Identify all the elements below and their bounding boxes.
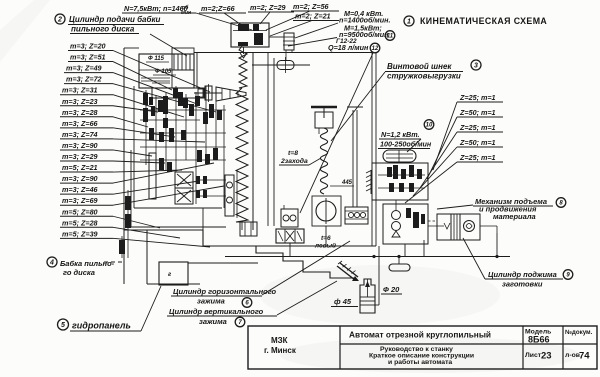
svg-text:Цилиндр горизонтального: Цилиндр горизонтального — [173, 287, 277, 296]
link spring to drive — [428, 223, 450, 229]
svg-text:m=5; Z=39: m=5; Z=39 — [62, 229, 98, 238]
svg-text:m=3; Z=90: m=3; Z=90 — [62, 141, 98, 150]
leader m=2 Z=21 — [270, 21, 312, 37]
gauge column — [225, 175, 234, 216]
piston block with balls — [345, 207, 368, 224]
leader line from label m=3; Z=69 — [113, 186, 224, 205]
svg-text:Цилиндр подачи бабки: Цилиндр подачи бабки — [69, 15, 161, 24]
gear box top motor housing — [231, 23, 269, 47]
vertical clamp cylinder — [360, 279, 375, 313]
svg-text:m=3; Z=20: m=3; Z=20 — [70, 42, 106, 51]
svg-text:m=3; Z=66: m=3; Z=66 — [62, 119, 99, 128]
directional valve A — [276, 229, 304, 243]
roller feed frame — [437, 214, 480, 240]
svg-text:1: 1 — [407, 19, 411, 26]
label 2: cylinder of saw-blade head feed — [55, 14, 65, 24]
leader line from label m=3; Z=74 — [113, 139, 205, 142]
svg-text:МЗК: МЗК — [271, 336, 288, 345]
leader dashes from label 4 — [104, 261, 122, 263]
svg-text:m=3; Z=29: m=3; Z=29 — [62, 152, 98, 161]
svg-text:5: 5 — [61, 322, 65, 329]
scan haze bottom-center — [260, 265, 500, 325]
pinch roller circle — [464, 221, 475, 232]
svg-text:m=3; Z=46: m=3; Z=46 — [62, 185, 99, 194]
leader line from label m=3; Z=31 — [113, 95, 184, 117]
svg-text:Бабка пильно-: Бабка пильно- — [60, 259, 115, 268]
svg-text:го диска: го диска — [63, 268, 95, 277]
label 5: hydraulic panel — [58, 319, 69, 330]
svg-text:445: 445 — [341, 180, 353, 186]
svg-text:Ф 115: Ф 115 — [148, 56, 165, 62]
leader for Z=50; m=1 — [413, 147, 457, 196]
leader from label 5 to panel — [141, 286, 161, 331]
svg-text:№докум.: №докум. — [565, 329, 593, 336]
leader from label 3 to screw — [331, 72, 385, 141]
leader from label 7 — [277, 281, 337, 315]
leader from label 9 — [463, 238, 485, 279]
svg-text:материала: материала — [493, 212, 536, 221]
pilot valve B — [281, 209, 298, 227]
leader line from label m=3; Z=66 — [113, 128, 175, 137]
leader from label 2 to saw head — [150, 34, 187, 56]
coupling capsule Z=107 — [277, 61, 294, 70]
item number 10 — [424, 120, 434, 130]
ratchet box — [383, 204, 428, 244]
feed screw (vertical rack / zig-zag) upper fine section — [239, 46, 247, 88]
leader line from label m=3; Z=23 — [113, 106, 158, 112]
svg-text:Ф 20: Ф 20 — [383, 285, 400, 294]
leader for Z=25; m=1 — [420, 132, 457, 188]
line to vertical clamp — [378, 246, 380, 305]
right riser — [496, 233, 498, 256]
svg-text:m=3; Z=28: m=3; Z=28 — [62, 108, 98, 117]
pump circle — [316, 201, 336, 221]
leader line from label m=3; Z=49 — [113, 73, 197, 104]
svg-text:11: 11 — [387, 34, 394, 40]
hydropanel box — [159, 262, 188, 285]
shaft from gearbox to pump motor — [269, 36, 283, 38]
feed screw lower coarse section — [236, 88, 248, 222]
svg-text:3: 3 — [474, 63, 478, 70]
sliding gear block (tall) — [149, 153, 156, 199]
machine column left edge — [123, 48, 125, 284]
svg-text:8Б66: 8Б66 — [528, 335, 550, 345]
bevel cone to feed screw — [216, 87, 246, 101]
feed roller striped — [451, 214, 460, 240]
svg-text:m=2; Z=29: m=2; Z=29 — [250, 3, 286, 12]
svg-text:23: 23 — [541, 351, 552, 362]
leader line from label m=3; Z=72 — [113, 84, 216, 112]
feed drive motor N=1,2 — [383, 150, 416, 162]
svg-text:m=2; Z=21: m=2; Z=21 — [295, 12, 331, 21]
svg-text:г. Минск: г. Минск — [264, 346, 297, 355]
leader line from label m=3; Z=90 — [113, 150, 152, 156]
arbor gear — [205, 86, 212, 100]
svg-text:74: 74 — [579, 351, 590, 362]
gearbox casing — [133, 86, 135, 208]
leader line from label m=5; Z=39 — [113, 238, 210, 247]
svg-text:Z=50; m=1: Z=50; m=1 — [459, 138, 496, 147]
pump motor (striped cylinder) — [284, 33, 294, 50]
svg-text:Z=50; m=1: Z=50; m=1 — [459, 108, 496, 117]
svg-text:гидропанель: гидропанель — [72, 321, 131, 331]
clutch box lower — [175, 188, 193, 204]
svg-text:Z=25; m=1: Z=25; m=1 — [459, 93, 496, 102]
svg-text:10: 10 — [426, 123, 433, 129]
dashed link — [428, 220, 436, 222]
column right edge — [252, 52, 254, 230]
long hydraulic line y=52 — [194, 52, 374, 54]
leader m=2 Z=29 — [260, 12, 270, 24]
svg-text:12: 12 — [372, 46, 379, 52]
svg-text:и работы автомата: и работы автомата — [388, 358, 452, 366]
line y=65 with coupling — [252, 64, 310, 66]
gear cluster shafts — [145, 90, 147, 165]
title block frame — [248, 326, 597, 369]
svg-text:m=5; Z=21: m=5; Z=21 — [62, 163, 98, 172]
arbor shaft — [194, 92, 222, 94]
leader line from label m=3; Z=28 — [113, 117, 148, 127]
pressure line down right — [371, 53, 373, 247]
small valve block C — [240, 222, 257, 236]
svg-text:Винтовой шнек: Винтовой шнек — [387, 62, 452, 71]
leader line from label m=3; Z=20 — [113, 51, 210, 93]
down arrow from gearbox to screw — [240, 47, 247, 58]
hatched stop symbol — [337, 266, 355, 280]
saw head housing — [139, 54, 194, 88]
pump outlet — [325, 226, 327, 246]
svg-text:N=7,5кВт; n=1460: N=7,5кВт; n=1460 — [124, 4, 188, 13]
svg-text:N=1,2 кВт.: N=1,2 кВт. — [381, 130, 420, 139]
leader for Z=25; m=1 — [433, 102, 457, 170]
svg-text:m=3; Z=23: m=3; Z=23 — [62, 97, 98, 106]
leader from M=1,5 label — [288, 38, 337, 47]
svg-text:ф 45: ф 45 — [334, 297, 352, 306]
clutch box upper — [175, 172, 193, 188]
item number 11 — [385, 31, 395, 41]
svg-text:пильного диска: пильного диска — [71, 25, 135, 34]
gear cluster wheels — [143, 93, 148, 105]
item number 12 — [370, 43, 380, 53]
svg-text:100-250об/мин: 100-250об/мин — [380, 140, 432, 149]
leader m=2 Z=56 — [266, 11, 310, 30]
chip screw (wavy) — [320, 128, 327, 194]
svg-text:m=3; Z=31: m=3; Z=31 — [62, 86, 98, 95]
svg-text:m=3; Z=72: m=3; Z=72 — [66, 75, 102, 84]
svg-text:m=3; Z=51: m=3; Z=51 — [70, 53, 106, 62]
svg-text:Q=18 л/мин: Q=18 л/мин — [328, 43, 369, 52]
left lower shaft — [127, 190, 129, 258]
leader line from label m=5; Z=80 — [113, 216, 160, 228]
worm hatch — [370, 170, 372, 194]
leader for Z=50; m=1 — [427, 117, 457, 179]
svg-text:стружковыгрузки: стружковыгрузки — [387, 72, 461, 81]
leader m=2 Z=66 — [224, 13, 243, 26]
svg-text:m=5; Z=80: m=5; Z=80 — [62, 207, 98, 216]
leader for Z=25; m=1 — [405, 162, 457, 203]
svg-text:л-ов: л-ов — [565, 352, 580, 359]
chip screw handwheel — [311, 106, 337, 108]
svg-text:2: 2 — [57, 17, 62, 24]
leader line from label m=3; Z=90 — [113, 163, 214, 183]
hydraulic line y=256 — [225, 256, 510, 258]
svg-text:Z=25; m=1: Z=25; m=1 — [459, 153, 496, 162]
svg-text:2захода: 2захода — [280, 157, 308, 165]
saw head cap — [172, 48, 194, 54]
leader from label 8 — [437, 205, 473, 209]
svg-text:t=8: t=8 — [288, 150, 298, 157]
svg-text:Z=25; m=1: Z=25; m=1 — [459, 123, 496, 132]
label 4: saw blade head — [47, 257, 57, 267]
bed left pillar — [146, 230, 148, 284]
svg-text:Автомат отрезной круглопильный: Автомат отрезной круглопильный — [349, 330, 491, 340]
machine bed outline — [124, 230, 356, 278]
leader line from label m=5; Z=21 — [113, 170, 182, 172]
item number 1 — [404, 16, 414, 26]
svg-text:m=2;Z=66: m=2;Z=66 — [201, 4, 236, 13]
svg-text:m=3; Z=49: m=3; Z=49 — [66, 64, 102, 73]
saw arbor stripes — [173, 54, 175, 70]
bed long line — [203, 245, 376, 247]
leader from label 6 — [262, 241, 350, 295]
screw housing verticals — [267, 52, 269, 226]
support step — [423, 240, 425, 256]
feed gearbox internals — [387, 167, 392, 177]
svg-text:Цилиндр вертикального: Цилиндр вертикального — [169, 307, 264, 316]
svg-text:зажима: зажима — [197, 297, 225, 306]
leader line 12 to pump — [300, 53, 373, 213]
guide rod pair — [352, 110, 354, 207]
leader line from label m=3; Z=46 — [113, 181, 199, 194]
weight capsule — [389, 264, 410, 271]
svg-text:КИНЕМАТИЧЕСКАЯ СХЕМА: КИНЕМАТИЧЕСКАЯ СХЕМА — [420, 16, 547, 26]
bed lower line — [188, 262, 258, 264]
leader from M=0,4 label — [295, 23, 338, 38]
head dimension line — [152, 82, 170, 84]
svg-text:заготовки: заготовки — [502, 280, 543, 289]
svg-text:m=3; Z=74: m=3; Z=74 — [62, 130, 98, 139]
svg-text:зажима: зажима — [199, 317, 227, 326]
leader from N=1,2 label — [407, 139, 421, 152]
svg-text:Цилиндр поджима: Цилиндр поджима — [488, 270, 557, 279]
svg-text:m=5; Z=28: m=5; Z=28 — [62, 218, 98, 227]
svg-text:m=3; Z=90: m=3; Z=90 — [62, 174, 98, 183]
leader line from label m=3; Z=29 — [113, 161, 165, 163]
scan smudge top-left — [0, 0, 50, 62]
svg-text:Лист: Лист — [525, 352, 542, 359]
leader from motor label — [196, 13, 252, 30]
svg-text:m=2; Z=56: m=2; Z=56 — [293, 2, 330, 11]
saw head lower step — [152, 88, 204, 98]
svg-text:m=3; Z=69: m=3; Z=69 — [62, 196, 98, 205]
feed gearbox frame — [372, 163, 428, 200]
leader line from label m=3; Z=51 — [113, 62, 172, 90]
leader line from label m=5; Z=28 — [113, 227, 180, 238]
svg-text:4: 4 — [49, 260, 54, 267]
junction dots — [372, 255, 375, 258]
